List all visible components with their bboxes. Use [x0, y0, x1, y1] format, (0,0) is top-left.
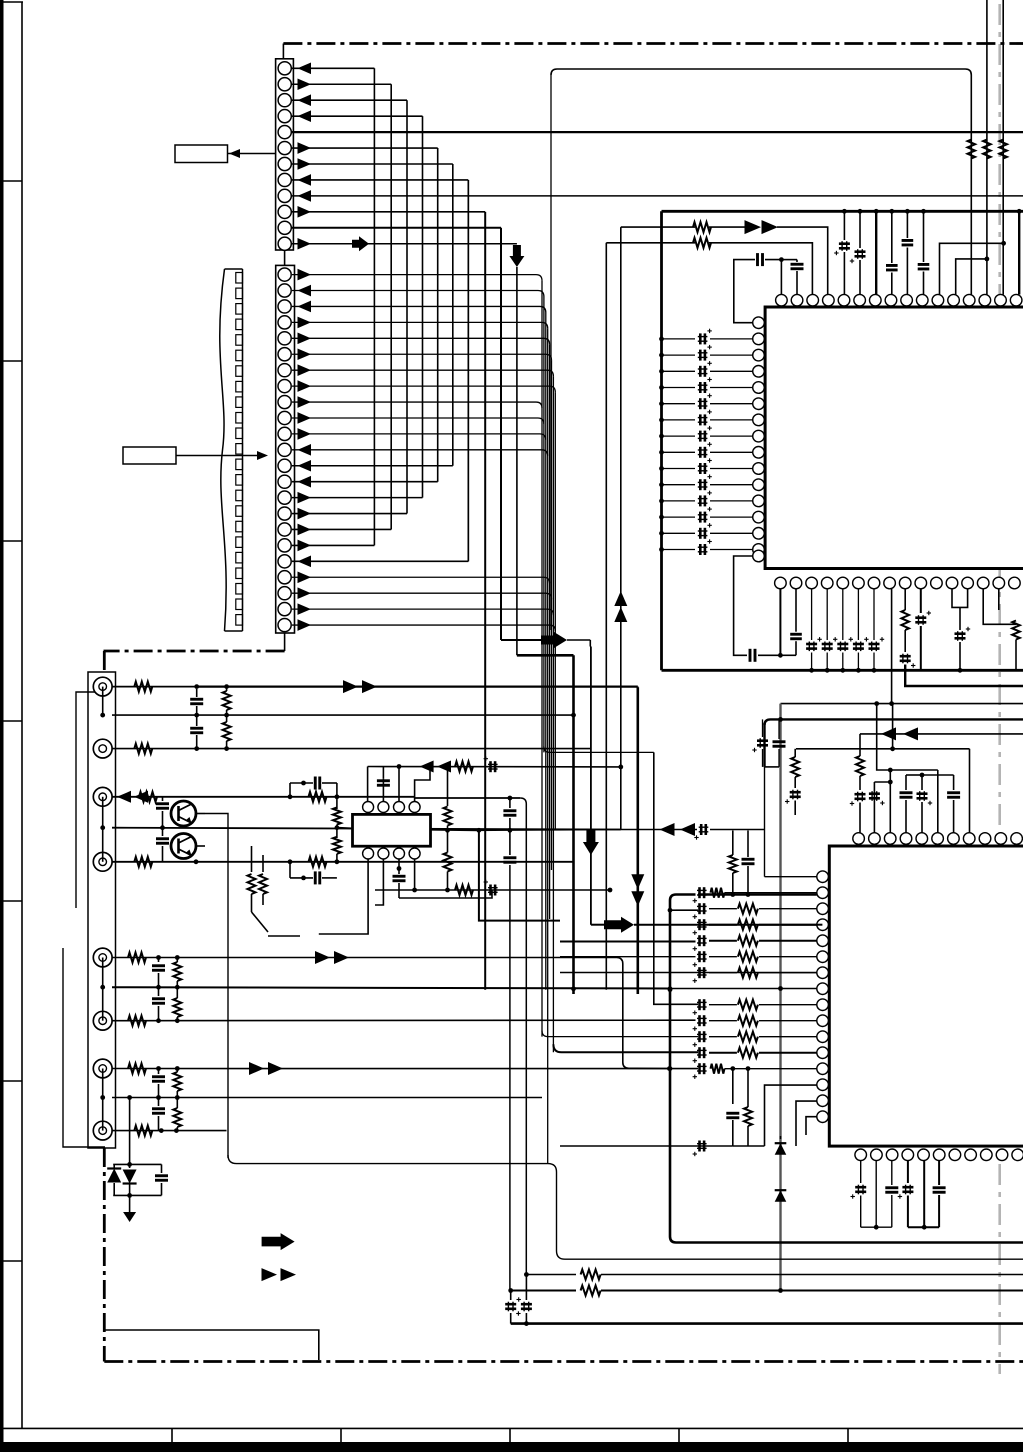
capacitor C13 (polarized) between y719/y767	[762, 719, 764, 737]
IC U1 bottom pin 12	[946, 577, 958, 589]
connector CN2 pin 3	[278, 300, 291, 313]
wire row J6 (to IC2 pin10)	[112, 1019, 696, 1022]
IC U1 bottom pin 2	[790, 577, 802, 589]
wire U1 bottom pin8 to y703	[891, 589, 893, 704]
IC U1 left pin 9	[753, 447, 765, 459]
wire bundle vertical pin7	[552, 376, 554, 1052]
junction rail x844	[842, 209, 847, 214]
wire y69 from x551 to x971	[551, 69, 971, 75]
resistor RM6 row pin7	[709, 972, 737, 974]
wire bundle vertical pin4	[547, 328, 549, 1164]
wire y798 right ext	[415, 797, 520, 799]
arrow y766 b	[437, 761, 451, 773]
junction y1324	[524, 1321, 529, 1326]
connector CN2 pin 4	[278, 316, 291, 329]
connector CN1 pin 6	[278, 141, 291, 154]
arrow CN2 pin6	[298, 348, 312, 360]
arrow down x638 first	[631, 874, 644, 889]
junction rail x923	[921, 209, 926, 214]
wire y719 long (bold)	[765, 719, 1023, 725]
strip pin P3	[100, 985, 105, 990]
strip internal links	[102, 687, 104, 716]
wire y890 row	[375, 889, 610, 891]
row pin2 R/C pair to row above	[730, 892, 735, 897]
flow arrow bottom-left double	[262, 1268, 278, 1281]
wire CN2 pin1 to bundle	[292, 275, 542, 281]
junction rail x1019	[1017, 209, 1022, 214]
arrow CN2 pin17	[298, 524, 312, 536]
wire vertical x591 with down arrow	[590, 647, 592, 925]
wire vertical x501 (bold)	[500, 228, 502, 637]
junction y766/x447	[445, 764, 450, 769]
capacitor CL1 (polarized) on U1 left pin 2	[662, 338, 696, 340]
arrow CN1 pin9	[298, 190, 312, 202]
junction P3 x670	[668, 986, 673, 991]
IC U3 bottom pin 1	[363, 848, 374, 859]
U2 bottom element x860	[860, 1160, 862, 1183]
connector CN1 pin 4	[278, 110, 291, 123]
wire R4 to diodes	[709, 226, 745, 228]
wire CN2 pin4 to bundle	[292, 322, 548, 328]
board outline top (dash-dot)	[283, 42, 1023, 45]
wire row pin7 plain	[560, 972, 817, 974]
capacitor C38	[158, 1098, 160, 1107]
wire CN1 pin6 horizontal	[291, 147, 437, 149]
capacitor CM12 (polarized) row pin13	[698, 1063, 701, 1074]
page frame left margin bar	[0, 0, 4, 1452]
page frame bottom bar	[0, 1442, 1023, 1452]
arrow row P2 a	[660, 823, 675, 836]
capacitor C30 on U3 top pin2	[382, 778, 384, 801]
arrow down x638 second	[631, 891, 644, 906]
arrow bold CN1 pin12 flow	[352, 236, 369, 251]
arrow CN2 pin22	[298, 603, 312, 615]
arrow up x621 second	[614, 607, 627, 622]
wire y1146 lower row	[560, 1145, 733, 1147]
arrow row J7 b	[268, 1062, 283, 1075]
connector CN2 pin 23	[278, 618, 291, 631]
arrow bold at (567,640)	[541, 632, 567, 648]
wire staircase vertical x437	[437, 148, 439, 482]
arrow row J7 a	[249, 1062, 264, 1075]
flow arrow bottom-left block	[262, 1233, 295, 1250]
wire CN1 pin1 horizontal	[291, 67, 374, 69]
junction rail x892	[889, 209, 894, 214]
IC U2 top pin 6	[932, 833, 944, 845]
IC U1 bottom pin 7	[868, 577, 880, 589]
board outline left vertical lower (dash-dot)	[103, 1148, 106, 1362]
IC U1 top pin 14	[979, 294, 991, 306]
IC U2 top pin 4	[900, 833, 912, 845]
resistor R7 right edge	[1012, 621, 1020, 640]
wire U3 top pin4 up to y749 region	[415, 767, 430, 802]
U2 bottom element x891	[891, 1160, 893, 1185]
wire staircase vertical x422	[422, 116, 424, 497]
wire C9 bottom join	[780, 654, 796, 656]
jack J7	[93, 1059, 112, 1078]
jack J5	[93, 948, 112, 967]
IC U1 left pin 1	[753, 317, 765, 329]
resistor R33	[134, 1126, 152, 1136]
wire bracket down	[959, 607, 961, 630]
wire pair top to y830 row	[732, 831, 734, 853]
wire vertical x638 (bold, down arrows)	[636, 687, 639, 994]
junction rail2	[920, 773, 925, 778]
wire x517 to x573 (bold)	[517, 654, 574, 657]
resistor R14 vertical	[226, 687, 228, 691]
strip pin P1	[100, 713, 105, 718]
arrow CN2 pin18	[298, 540, 312, 552]
IC U2 left pin 1	[817, 871, 829, 883]
wire CN2 pin8 to bundle	[292, 386, 555, 392]
capacitor CB5 (polarized) on U1 bottom pin 7	[873, 589, 875, 640]
junction P1/x573	[571, 713, 576, 718]
page frame bottom tick 2	[340, 1428, 342, 1442]
wire R8 to C15	[859, 776, 861, 790]
junction U3 bottom pin3	[397, 866, 402, 871]
wire row pin12 left (bold) corner x559	[553, 1044, 698, 1052]
transistor Q2	[171, 834, 196, 859]
wire CN2 pin5 to bundle	[292, 338, 550, 344]
junction rail x876	[874, 209, 879, 214]
page frame left tick 3	[0, 540, 22, 542]
resistor RM2 row pin3	[709, 908, 737, 910]
IC U1 bottom pin 11	[931, 577, 943, 589]
wire staircase vertical x468	[467, 180, 469, 561]
capacitor C4 (polarized)	[859, 211, 861, 248]
IC U1 top pin 8	[885, 294, 897, 306]
connector CN1 pin 7	[278, 157, 291, 170]
U2 bottom element x939 (bold)	[938, 1160, 940, 1185]
page frame top stub	[0, 1, 23, 3]
wire y703 long	[781, 703, 1023, 705]
wire staircase vertical x407	[406, 100, 408, 513]
IC U1 bottom pin 3	[806, 577, 818, 589]
strip pin P4	[100, 1095, 105, 1100]
arrow CN2 pin12	[298, 444, 312, 456]
transistor Q1	[171, 801, 196, 826]
wire CN2 pin9 to bundle	[292, 402, 542, 408]
arrow CN1 pin10	[298, 206, 312, 218]
resistor RM5 row pin6	[709, 956, 737, 958]
resistor R17	[134, 857, 152, 867]
wire CN2 pin17 from staircase	[292, 528, 391, 530]
IC U2 top pin 10	[995, 833, 1007, 845]
diode D4 on x780 net	[775, 1190, 787, 1202]
wire CN1 pin9 bus (full width)	[291, 195, 1023, 197]
wire row J3	[112, 796, 337, 798]
strip pin P2	[100, 825, 105, 830]
IC U1 top pin 15	[995, 294, 1007, 306]
arrow left y734 first	[881, 727, 896, 740]
arrow row J1 a	[343, 680, 358, 693]
shield box around IC1 (bold)	[662, 210, 1023, 213]
connector CN1 pin 10	[278, 205, 291, 218]
resistor RM4 row pin5	[709, 940, 737, 942]
IC U1 bottom pin 14	[977, 577, 989, 589]
IC U2 left pin 4	[817, 919, 829, 931]
junction P3 x573	[571, 986, 576, 991]
capacitor C37	[158, 1069, 160, 1075]
capacitor C5	[891, 211, 893, 263]
leader line L2	[176, 455, 265, 457]
capacitor C35	[158, 958, 160, 963]
wire y749 to U2 top pin8	[969, 749, 971, 833]
board outline mid-left (dash-dot)	[104, 650, 285, 653]
IC U2 body	[829, 846, 1023, 1146]
arrow row J3 b	[134, 791, 148, 803]
wire row J8	[112, 1130, 227, 1132]
wire osc to C2	[781, 259, 797, 261]
wire diodes to pin4	[777, 227, 828, 294]
junction y766/pin3	[397, 764, 402, 769]
wire U3 bottom pin1 down	[319, 859, 368, 934]
wire row pin5 left (bold)	[560, 941, 696, 943]
connector CN2 pin 18	[278, 539, 291, 552]
resistor R36	[581, 1270, 601, 1280]
connector CN2 pin 9	[278, 395, 291, 408]
op-amp cluster series cap C27	[301, 781, 306, 786]
resistor R3 at x1003	[999, 140, 1007, 159]
wire CN1 pin11 (bold)	[291, 227, 501, 229]
wire CN1 pin4 horizontal	[291, 115, 422, 117]
wire arrow925 continue to IC2 pin4 row	[634, 924, 822, 926]
wire U1 bottom pin1 stub	[779, 589, 781, 656]
wire y830 mid link	[337, 827, 353, 830]
arrow bold down x591	[583, 829, 599, 855]
wire row J2	[112, 748, 197, 750]
board outline left vertical upper (dash-dot)	[103, 651, 106, 673]
wire CN2 pin6 to bundle	[292, 354, 552, 360]
arrow leader L1	[229, 149, 240, 158]
riser U2 top pin6 from rail	[937, 770, 939, 833]
connector CN2 pin 20	[278, 571, 291, 584]
stub CN1 to CN2	[284, 250, 286, 265]
wire vertical x606	[605, 243, 607, 990]
arrow CN1 pin8	[298, 174, 312, 186]
riser U2 top pin3	[889, 770, 891, 833]
U2 bottom element x924 (bold)	[923, 1160, 925, 1227]
wire CN2 pin19 from staircase	[292, 560, 468, 562]
capacitor CL5 (polarized) on U1 left pin 6	[662, 403, 696, 405]
wire row P3 (bold bus to IC2 pin8)	[112, 987, 670, 988]
row J4 continue (bold)	[196, 861, 574, 863]
connector CN1 pin 5	[278, 126, 291, 139]
wire row J4	[112, 861, 196, 863]
IC U1 top pin 5	[838, 294, 850, 306]
capacitor C23	[196, 715, 198, 726]
diode D5	[113, 1164, 115, 1168]
wire vertical x517 from CN1 pin12	[516, 267, 518, 655]
ground stub	[129, 1195, 131, 1213]
wire C8 to pin1 stub	[758, 654, 780, 656]
wire y752 from bundle	[544, 746, 654, 752]
wire CN2 pin14 from staircase	[292, 481, 438, 483]
capacitor CL7 (polarized) on U1 left pin 8	[662, 435, 696, 437]
junction pin8/y703	[889, 701, 894, 706]
wire vertical x621 (up arrows)	[620, 227, 622, 829]
IC U1 left pin 5	[753, 382, 765, 394]
wire row pin13 junction	[667, 1066, 672, 1071]
wire y898 return	[399, 890, 492, 898]
row P2 tail	[710, 829, 765, 831]
flex cable FC1 bottom end	[225, 630, 243, 632]
flex cable FC1 inner line	[242, 269, 244, 631]
junctions G3	[156, 955, 161, 960]
IC U2 left pin 14	[817, 1079, 829, 1091]
wire U1 bottom pin15 stub	[998, 589, 1000, 610]
corner x228 to y1164	[228, 1155, 548, 1164]
capacitor CL10 (polarized) on U1 left pin 11	[662, 484, 696, 486]
wire y227 resistor-diode row	[621, 226, 695, 228]
wire pin9 chain to y686 (bold)	[905, 665, 1023, 687]
resistor R31 vertical	[176, 987, 178, 998]
resistor R24 on y766	[455, 762, 473, 772]
wire CN2 pin7 to bundle	[292, 370, 553, 376]
connector CN2 pin 7	[278, 364, 291, 377]
IC U1 bottom pin 10	[915, 577, 927, 589]
connector CN2 pin 14	[278, 475, 291, 488]
IC U2 bottom pin 2	[871, 1149, 883, 1161]
resistor R6 on pin9 stub	[904, 589, 906, 610]
arrow row J5 b	[334, 951, 349, 964]
capacitor CL2 (polarized) on U1 left pin 3	[662, 354, 696, 356]
connector CN2 pin 1	[278, 268, 291, 281]
wire CN2 pin23 to bundle	[292, 625, 555, 631]
IC U1 bottom pin 9	[899, 577, 911, 589]
board outline bottom (dash-dot)	[104, 1360, 1023, 1363]
page frame bottom tick 5	[847, 1428, 849, 1442]
page frame left tick 2	[0, 360, 22, 362]
wire Q1 node down x228	[205, 814, 228, 1159]
IC U1 left pin 14	[753, 528, 765, 540]
IC U2 top pin 5	[916, 833, 928, 845]
U2 bottom element x907 (bold)	[907, 1160, 909, 1183]
IC U1 left pin 16 (loop)	[753, 550, 765, 562]
wire row pin6 left	[560, 956, 696, 958]
flex cable FC1 outer curve	[220, 269, 226, 631]
IC U2 bottom pin 10	[996, 1149, 1008, 1161]
leader line L1	[228, 153, 276, 155]
IC U2 top pin 1	[853, 833, 865, 845]
Q collector wires	[196, 813, 205, 815]
resistor R12	[134, 682, 152, 692]
IC U3 top pin 1	[363, 802, 374, 813]
wire y1275 with resistor	[526, 1274, 576, 1276]
wire pin12 corner to x987	[956, 259, 987, 295]
wire vertical x485 (bold)	[484, 212, 486, 990]
resistor RM11 row pin12	[709, 1052, 737, 1054]
wire CN2 pin10 to bundle	[292, 418, 544, 424]
wire U3 top pin1 stub	[367, 767, 369, 802]
capacitor C2	[796, 260, 798, 262]
wire row P4	[112, 1097, 542, 1099]
connector CN2 body	[276, 265, 295, 633]
capacitor C9	[795, 589, 797, 632]
resistor R28	[128, 953, 146, 963]
jack J8	[93, 1121, 112, 1140]
resistor R30 vertical	[176, 958, 178, 963]
IC U2 top pin 11	[1011, 833, 1023, 845]
IC U3 top pin 4	[409, 802, 420, 813]
arrow CN2 pin20	[298, 571, 312, 583]
resistor R27 vertical x447 lower	[444, 853, 452, 872]
resistor R21 vertical x337	[333, 808, 341, 825]
capacitor CL14 (polarized) on U1 left pin 15	[662, 549, 696, 551]
resistor R11 vertical	[744, 1107, 752, 1126]
wire pin11 corner to x1003	[940, 243, 1004, 294]
wire vertical x987 from top	[986, 0, 988, 295]
junction bottom pin1	[778, 653, 783, 658]
junction x780/y1290	[778, 1288, 783, 1293]
page frame left tick 6	[0, 1080, 22, 1082]
capacitor C22	[196, 689, 198, 697]
resistor R23 on J4 row	[309, 857, 327, 867]
connector CN1 body	[276, 59, 294, 250]
arrow CN1 pin3	[298, 94, 312, 106]
jack strip body	[88, 672, 116, 1148]
arrow CN2 pin16	[298, 508, 312, 520]
wire rows pin15/16 corners	[796, 1101, 817, 1146]
wire U3 bottom pin2 down	[375, 859, 383, 905]
bracket group 1	[76, 692, 110, 908]
jack J4	[93, 852, 112, 871]
row P2 right of x621	[621, 829, 697, 831]
capacitor C11 (polarized) on pin10	[920, 589, 922, 613]
arrow CN2 pin15	[298, 492, 312, 504]
resistor R32	[128, 1064, 146, 1074]
capacitor CL4 (polarized) on U1 left pin 5	[662, 387, 696, 389]
junction x621/y767	[618, 765, 623, 770]
junction x1003/y243	[1001, 241, 1006, 246]
arrow CN1 pin7	[298, 158, 312, 170]
wire CN1 pin8 horizontal	[291, 179, 468, 181]
diode D6	[129, 1164, 131, 1168]
connector CN2 pin 6	[278, 348, 291, 361]
capacitor C3 (polarized)	[843, 211, 845, 240]
capacitor CL11 (polarized) on U1 left pin 12	[662, 500, 696, 502]
IC U3 bottom pin 3	[394, 848, 405, 859]
cluster bottom rail	[113, 1194, 161, 1196]
IC U1 top pin 1	[776, 294, 788, 306]
capacitor C15 (polarized)	[855, 793, 866, 796]
resistor R22 vertical x337	[333, 837, 341, 854]
resistor R20 on J3 row	[309, 792, 327, 802]
IC U2 top pin 9	[979, 833, 991, 845]
capacitor C25	[162, 797, 164, 801]
resistor R10 vertical	[732, 852, 734, 855]
IC U2 left pin 3	[817, 903, 829, 915]
resistor R35 vertical	[176, 1098, 178, 1109]
capacitor C14 between y719/y767	[778, 719, 780, 739]
capacitor C18 on U2 top pin4	[905, 775, 907, 790]
IC U2 left pin 11	[817, 1031, 829, 1043]
flex cable FC1 top end	[225, 268, 243, 270]
capacitor C19 (polarized) on U2 top pin5	[921, 775, 923, 790]
resistor R5	[693, 238, 711, 248]
IC U1 top pin 11	[932, 294, 944, 306]
IC U2 left pin 8	[817, 983, 829, 995]
wire x501 corner to arrow	[500, 637, 502, 640]
junction bus dots x670	[668, 987, 673, 992]
capacitor C7	[923, 211, 925, 262]
wire CN2 pin21 to bundle	[292, 593, 552, 599]
wire CN1 pin3 horizontal	[291, 99, 407, 101]
junction y890	[608, 888, 613, 893]
IC U2 top pin 7	[948, 833, 960, 845]
IC U2 left pin 9	[817, 999, 829, 1011]
wire CN1 pin2 horizontal	[291, 83, 391, 85]
